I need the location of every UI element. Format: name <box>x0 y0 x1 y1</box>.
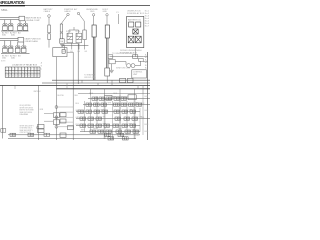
connector C500 <box>105 95 113 99</box>
coil L1 <box>127 64 135 68</box>
svg-text:TO B-5: TO B-5 <box>134 135 140 137</box>
wire bottom row 1 <box>8 134 140 136</box>
note block NB1 <box>20 105 34 116</box>
wire bus B <box>0 39 18 41</box>
bus line PWR4 <box>56 88 150 90</box>
module M1 <box>128 95 136 100</box>
connector C502 <box>99 97 105 100</box>
relay K2 <box>76 33 82 43</box>
svg-text:B-14: B-14 <box>145 131 149 133</box>
wire drops B <box>5 41 24 46</box>
connector C402 <box>18 37 24 42</box>
connector C517 <box>136 103 142 106</box>
connector C513 <box>101 103 107 106</box>
wire branch y113 <box>44 113 53 115</box>
connector C547 <box>130 124 136 127</box>
svg-text:3: 3 <box>12 69 13 71</box>
connector C566 <box>108 137 114 140</box>
svg-text:WHT: WHT <box>81 130 85 132</box>
wire row y118.6 <box>76 118 150 120</box>
wire mesh top rail <box>78 93 150 95</box>
relay k11 <box>133 29 138 34</box>
svg-text:GND: GND <box>103 11 108 13</box>
svg-text:SB91-: SB91- <box>1 8 8 12</box>
switch S1 <box>109 60 115 70</box>
svg-text:B8: B8 <box>28 76 30 78</box>
svg-text:5: 5 <box>19 69 20 71</box>
ignition feed connector C21 <box>133 55 138 59</box>
svg-text:B1: B1 <box>6 76 8 78</box>
svg-text:7: 7 <box>25 69 26 71</box>
connector C561 <box>10 133 16 136</box>
wire C55 to rail <box>67 51 73 53</box>
connector C525 <box>122 110 128 113</box>
relay k12 <box>128 36 134 43</box>
connector C515 <box>121 103 127 106</box>
connector C568 <box>1 129 6 133</box>
wire rail x56 <box>55 86 57 140</box>
connector C511 <box>86 103 92 106</box>
wire chain branches <box>58 107 73 127</box>
relay R6 <box>8 46 13 53</box>
mesh right edge labels <box>145 96 149 133</box>
svg-text:2: 2 <box>9 69 10 71</box>
connector C571 <box>53 120 59 125</box>
connector C545 <box>122 124 128 127</box>
connector C570 <box>53 113 59 118</box>
svg-text:B3: B3 <box>12 76 14 78</box>
connector pendant G4 engine ground <box>92 14 96 81</box>
ground stubs K <box>64 43 84 49</box>
wire color labels <box>103 124 133 126</box>
svg-text:DIAGRAM: DIAGRAM <box>20 113 29 116</box>
svg-text:B6: B6 <box>22 76 24 78</box>
svg-text:CIRCUIT (B-2): CIRCUIT (B-2) <box>84 77 96 79</box>
svg-text:BLK/YEL: BLK/YEL <box>58 95 65 97</box>
connector pendant P7 <box>118 14 120 24</box>
svg-text:8: 8 <box>28 69 29 71</box>
connector C552 <box>98 130 104 133</box>
connector pendant G2 starter <box>60 13 69 39</box>
table text <box>1 61 40 78</box>
connector C575 <box>60 119 66 123</box>
svg-text:CABLE: CABLE <box>44 10 51 13</box>
relay R7 <box>15 46 20 53</box>
wire mesh double verticals <box>104 95 135 139</box>
relay k13 <box>135 36 141 43</box>
ground G1 <box>60 44 64 46</box>
mesh labels <box>76 93 146 137</box>
svg-text:NOTE: NOTE <box>1 61 5 63</box>
legend column right mid <box>145 54 148 69</box>
svg-text:1: 1 <box>6 69 7 71</box>
svg-text:6: 6 <box>22 69 23 71</box>
svg-text:B-12: B-12 <box>145 110 149 112</box>
svg-text:GRN: GRN <box>76 117 81 119</box>
fuse f11 <box>129 22 134 27</box>
svg-text:B-11: B-11 <box>145 96 149 98</box>
connector C523 <box>94 110 100 113</box>
ground G10 <box>109 70 113 73</box>
bus line PWR2 <box>42 82 150 84</box>
connector C574 <box>60 113 66 117</box>
wire M1 feed <box>112 96 128 98</box>
wire color labels <box>108 103 140 105</box>
connector C565 <box>123 137 129 140</box>
ground bus A <box>1 30 29 32</box>
wire row y104.6 <box>83 104 150 106</box>
svg-text:YEL: YEL <box>141 117 144 119</box>
fuse f12 <box>136 22 141 27</box>
connector C536 <box>132 117 138 120</box>
relay R5 <box>3 46 8 53</box>
connector C533 <box>96 117 102 120</box>
wire right rail <box>147 52 149 140</box>
wire mesh verticals <box>85 93 144 139</box>
relay R1 <box>3 24 8 31</box>
connector pendant P8 <box>83 30 86 45</box>
wire vertical N2 <box>72 52 74 140</box>
wire rail stubs <box>143 57 147 62</box>
svg-text:FUSE/RELAY BOX: FUSE/RELAY BOX <box>127 12 145 15</box>
connector C554 <box>116 130 122 133</box>
splice S10 <box>55 106 58 109</box>
svg-text:UNDER DASH: UNDER DASH <box>25 40 39 43</box>
connector C512 <box>94 103 100 106</box>
svg-text:NFIGURATION: NFIGURATION <box>0 0 25 5</box>
wire bus drop ticks <box>82 80 138 89</box>
wire tag labels <box>34 91 79 111</box>
svg-text:BATTERY IG1: BATTERY IG1 <box>128 18 142 21</box>
connector C514 <box>114 103 120 106</box>
connector C20 <box>108 55 113 59</box>
connector C546 <box>104 124 110 127</box>
bracket note above bus <box>84 74 96 79</box>
wire color labels <box>81 130 136 132</box>
relay K1 <box>67 33 73 43</box>
diode box D1 <box>139 58 144 61</box>
wire bus A <box>0 18 19 20</box>
connector C534 <box>115 117 121 120</box>
wire left rail <box>2 85 4 138</box>
svg-text:WHT: WHT <box>108 103 112 105</box>
ground bus B <box>1 53 30 55</box>
svg-text:ENGINE COMP: ENGINE COMP <box>26 20 41 22</box>
wire feed <box>110 56 144 58</box>
wire row y111.6 <box>76 111 140 113</box>
wire branch y121 <box>44 120 53 122</box>
wire bus stubs <box>90 86 143 99</box>
fuse F30A <box>60 39 79 44</box>
keyless control unit box <box>132 70 147 78</box>
svg-text:WHT/BLK: WHT/BLK <box>34 91 42 93</box>
wire vertical N1 <box>77 43 79 84</box>
svg-text:10: 10 <box>35 69 37 71</box>
connector C567 <box>44 133 50 136</box>
svg-text:GND: GND <box>90 11 95 13</box>
header rule <box>0 4 150 7</box>
connector C522 <box>86 110 92 113</box>
svg-text:B9: B9 <box>31 76 33 78</box>
connector C541 <box>80 124 86 127</box>
note block NB2 <box>20 125 35 134</box>
connector C532 <box>88 117 94 120</box>
wire to coil <box>115 62 126 65</box>
connector C430 <box>120 78 126 82</box>
svg-text:B7: B7 <box>25 76 27 78</box>
connector C576 <box>68 126 74 130</box>
svg-text:TO IGNITION SWITCH: TO IGNITION SWITCH <box>112 53 133 55</box>
wire relay feeds <box>69 27 79 33</box>
table side labels <box>41 61 43 70</box>
svg-text:CABLE: CABLE <box>64 10 71 13</box>
connector C431 <box>127 78 133 82</box>
connector C564 <box>118 133 124 136</box>
connector C516 <box>129 103 135 106</box>
wire row y125.6 <box>76 125 140 127</box>
connector C527 <box>130 110 136 113</box>
wire stub x15 <box>14 85 16 89</box>
connector C501 <box>92 97 98 100</box>
terminal T1 <box>36 126 38 128</box>
connector C544 <box>113 124 119 127</box>
svg-text:LOCATION OF RELAY BOX: LOCATION OF RELAY BOX <box>12 64 38 67</box>
connector C401 <box>19 16 25 21</box>
connector C572 <box>38 124 44 128</box>
connector C526 <box>102 110 108 113</box>
under-hood fuse/relay box U10 <box>127 16 144 47</box>
connector C535 <box>124 117 130 120</box>
connector C521 <box>78 110 84 113</box>
wire relaybox to ignition <box>135 48 137 57</box>
wire coil out <box>135 61 141 66</box>
wire row y131.6 <box>80 131 140 133</box>
svg-text:4: 4 <box>15 69 16 71</box>
connector pendant G5 body ground <box>105 14 110 83</box>
connector C543 <box>96 124 102 127</box>
connector C577 <box>60 133 66 137</box>
svg-text:CIRCUIT B-22: CIRCUIT B-22 <box>20 132 32 134</box>
svg-text:DRIVER UNDER-DASH: DRIVER UNDER-DASH <box>120 49 142 52</box>
connector C503 <box>106 97 112 100</box>
connector C563 <box>105 133 111 136</box>
wire color labels <box>101 110 133 112</box>
splice S11 <box>55 116 58 119</box>
wire color labels <box>113 97 117 99</box>
svg-text:11: 11 <box>38 69 40 71</box>
relay labels <box>66 30 81 33</box>
connector C553 <box>106 130 112 133</box>
wire stub x67 <box>66 83 68 89</box>
relay R8 <box>21 46 26 53</box>
connector C573 <box>38 129 44 133</box>
table fuse chart <box>5 67 40 77</box>
svg-text:C412: C412 <box>118 128 122 130</box>
ground bus K <box>62 44 88 46</box>
junction box C55 <box>53 48 67 86</box>
connector C556 <box>133 130 139 133</box>
bus line PWR3 <box>0 84 150 86</box>
svg-text:B2: B2 <box>9 76 11 78</box>
connector C524 <box>114 110 120 113</box>
connector C505 <box>121 97 127 100</box>
connector C504 <box>114 97 120 100</box>
svg-text:C410: C410 <box>93 128 97 130</box>
svg-text:B-13: B-13 <box>145 124 149 126</box>
ignition sub-circuit <box>108 52 147 140</box>
connector C531 <box>80 117 86 120</box>
svg-text:B-6: B-6 <box>145 67 148 69</box>
svg-text:9: 9 <box>31 69 32 71</box>
svg-text:B11: B11 <box>38 76 41 78</box>
connector pendant G1 battery <box>48 15 51 48</box>
connector C562 <box>28 133 34 136</box>
relay R2 <box>8 24 13 31</box>
wire rail x38 <box>38 85 40 140</box>
connector C551 <box>90 130 96 133</box>
splice S12 <box>55 125 58 128</box>
relay R4 <box>23 24 28 31</box>
svg-text:B5: B5 <box>19 76 21 78</box>
relay R3 <box>18 24 23 31</box>
wire drops A <box>5 20 26 24</box>
svg-text:IGNITION COIL: IGNITION COIL <box>116 68 131 70</box>
svg-text:B4: B4 <box>15 76 17 78</box>
connector C555 <box>125 130 131 133</box>
connector C542 <box>88 124 94 127</box>
wire bottom row 2 <box>8 137 136 139</box>
wire row y98.6 <box>88 98 150 100</box>
wire color labels <box>103 117 143 119</box>
bus line PWR1 <box>52 79 150 81</box>
connector pendant G3 alternator <box>77 12 84 30</box>
